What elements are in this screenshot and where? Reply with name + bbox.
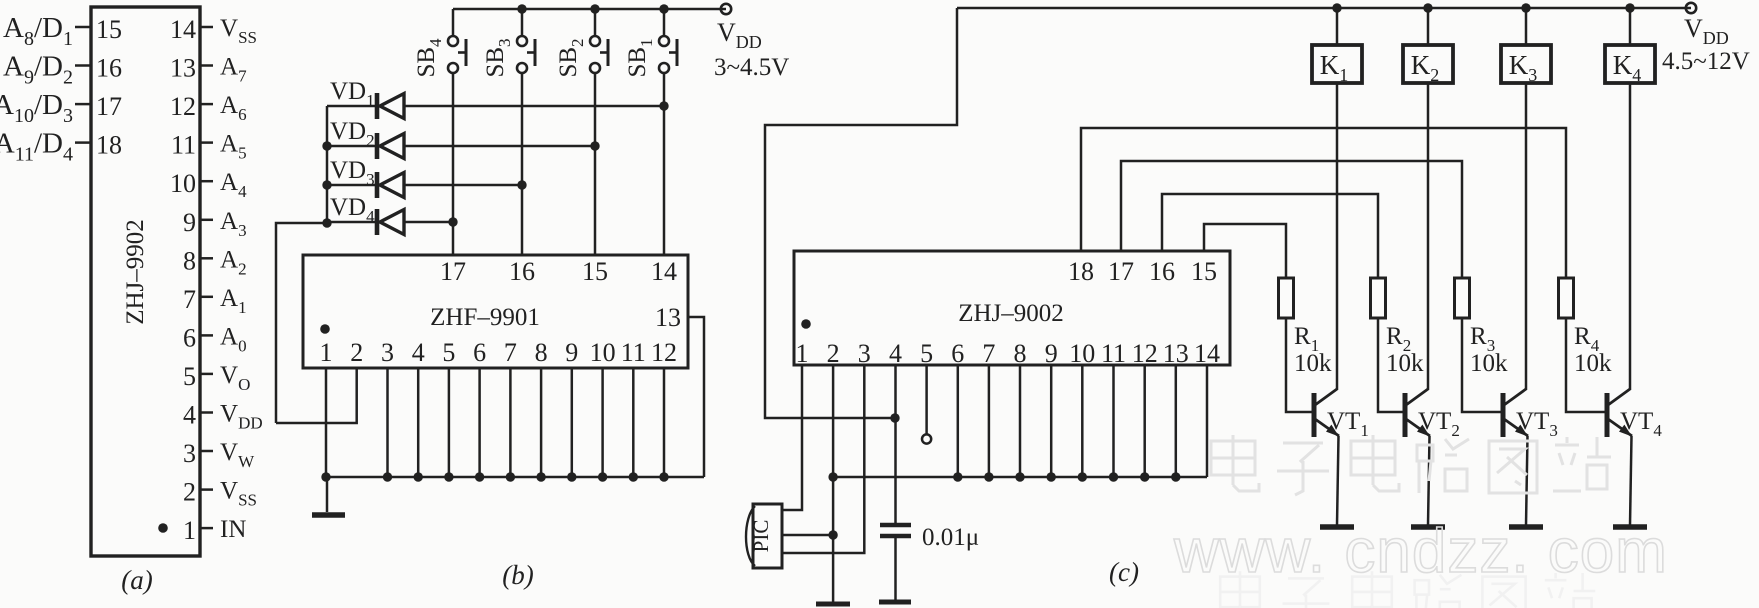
svg-text:VDD​: VDD​ (220, 401, 263, 433)
IC U3 pin 5 open terminal (922, 365, 931, 444)
IC U2 pin 17 label (440, 257, 466, 286)
wire A3/VDD to cathode node (276, 223, 327, 423)
label 0.01u (922, 524, 979, 551)
IC U3 pin 8 label (1014, 339, 1027, 368)
resistor R4 10k (1559, 278, 1613, 412)
wire ZHJ-9002 pin 3 to PIC (782, 365, 864, 553)
IC U1 pin 5 (VO) (183, 362, 250, 394)
svg-text:6: 6 (473, 338, 486, 367)
IC U1 pin 9 (A3) (183, 208, 247, 240)
svg-text:11: 11 (621, 338, 646, 367)
wire SB3 to ZHF-9901 pin 16 (517, 73, 526, 255)
svg-text:4.5~12V: 4.5~12V (1662, 48, 1750, 75)
svg-text:7: 7 (183, 285, 196, 314)
svg-text:1: 1 (796, 339, 809, 368)
node common cathode line (322, 106, 331, 228)
transistor VT1 (1314, 389, 1369, 527)
diode VD1 (327, 78, 664, 119)
svg-text:3~4.5V: 3~4.5V (714, 54, 789, 81)
IC U2 pin 5 label (442, 338, 455, 367)
IC U1 pin 15 (A8/D1) (3, 12, 122, 50)
svg-text:10k: 10k (1470, 350, 1508, 377)
IC U3 pin-1 indicator dot (801, 319, 811, 329)
IC U2 pin 12 label (651, 338, 677, 367)
svg-text:13: 13 (1163, 339, 1189, 368)
svg-text:SB1: SB1 (624, 38, 656, 77)
IC U2 ZHF-9901 body (303, 255, 688, 368)
svg-text:VT3: VT3 (1516, 408, 1558, 440)
svg-text:A10​/D3​: A10​/D3​ (0, 89, 73, 127)
svg-text:2: 2 (183, 478, 196, 507)
svg-text:A5​: A5​ (220, 131, 247, 163)
svg-text:9: 9 (1045, 339, 1058, 368)
IC U1 pin 12 (A6) (170, 92, 247, 124)
IC U2 pin 9 label (565, 338, 578, 367)
IC U3 pin 13 label (1163, 339, 1189, 368)
svg-text:10k: 10k (1574, 350, 1612, 377)
svg-text:(a): (a) (121, 565, 152, 595)
svg-text:A11​/D4​: A11​/D4​ (0, 128, 73, 166)
pushbutton SB1 (624, 4, 677, 77)
wire ZHF-9901 pin 12 to bus (659, 368, 668, 482)
IC U1 name ZHJ-9902 (rotated) (122, 219, 149, 325)
svg-text:17: 17 (96, 92, 122, 121)
svg-text:SB4: SB4 (413, 38, 445, 78)
resistor R1 10k (1279, 278, 1333, 412)
IC U2 name ZHF-9901 (430, 304, 540, 331)
svg-text:10k: 10k (1386, 350, 1424, 377)
wire ZHJ-9002 pin 2 ground (828, 365, 837, 602)
IC U2 pin 3 label (381, 338, 394, 367)
resistor R3 10k (1455, 278, 1509, 412)
svg-text:7: 7 (982, 339, 995, 368)
IC U3 pin 9 label (1045, 339, 1058, 368)
svg-text:0.01μ: 0.01μ (922, 524, 979, 551)
ground bus (c) (833, 476, 1207, 479)
svg-text:2: 2 (350, 338, 363, 367)
relay K2 (1403, 3, 1453, 390)
label 3~4.5V (714, 54, 789, 81)
svg-text:A6​: A6​ (220, 92, 247, 124)
wire ZHF-9901 pin 10 to bus (598, 368, 607, 482)
IC U2 pin 2 label (350, 338, 363, 367)
svg-text:A3​: A3​ (220, 208, 247, 240)
wire SB4 to ZHF-9901 pin 17 (448, 73, 457, 255)
label (b) (502, 560, 533, 590)
IC U3 pin 5 label (920, 339, 933, 368)
IC U1 pin 8 (A2) (183, 246, 247, 278)
IC U3 ZHJ-9002 body (794, 251, 1230, 365)
svg-text:IN: IN (220, 516, 246, 543)
wire ZHF-9901 pin 13 (688, 317, 704, 477)
svg-text:8: 8 (1014, 339, 1027, 368)
IC U3 name ZHJ-9002 (958, 300, 1064, 327)
svg-text:14: 14 (170, 15, 196, 44)
wire ZHF-9901 pin 3 to bus (383, 368, 392, 482)
VDD terminal (b) (721, 4, 731, 14)
relay K3 (1501, 3, 1551, 390)
IC U3 pin 12 label (1132, 339, 1158, 368)
svg-text:10: 10 (590, 338, 616, 367)
wire ZHF-9901 pin 7 to bus (506, 368, 515, 482)
ground (pin2) (816, 602, 850, 607)
ground (b) (312, 477, 345, 515)
wire to ZHF-9901 pin 2 (276, 368, 357, 423)
svg-text:17: 17 (1108, 257, 1134, 286)
svg-text:1: 1 (320, 338, 333, 367)
svg-text:PIC: PIC (749, 520, 773, 553)
wire ZHF-9901 pin 6 to bus (475, 368, 484, 482)
IC U2 pin 8 label (535, 338, 548, 367)
svg-text:15: 15 (1191, 257, 1217, 286)
svg-text:12: 12 (1132, 339, 1158, 368)
svg-text:VSS​: VSS​ (220, 15, 257, 47)
wire SB1 to ZHF-9901 pin 14 (659, 73, 668, 255)
IC U3 pin 17 label (1108, 257, 1134, 286)
svg-text:A1​: A1​ (220, 285, 247, 317)
svg-text:10: 10 (170, 169, 196, 198)
svg-text:A2​: A2​ (220, 246, 247, 278)
IC U1 pin 1 (IN) (183, 516, 246, 545)
svg-text:VW​: VW​ (220, 439, 255, 471)
svg-text:VO​: VO​ (220, 362, 250, 394)
svg-text:11: 11 (171, 131, 196, 160)
svg-text:ZHJ–9002: ZHJ–9002 (958, 300, 1064, 327)
svg-text:K2: K2 (1411, 50, 1440, 85)
svg-text:VDD: VDD (717, 18, 762, 52)
svg-text:2: 2 (827, 339, 840, 368)
svg-text:8: 8 (535, 338, 548, 367)
svg-text:VT4: VT4 (1620, 408, 1662, 440)
IC U1 pin 18 (A11/D4) (0, 128, 122, 166)
wire VDD rail (c) (957, 7, 1691, 10)
diode VD3 (327, 157, 522, 198)
label 4.5~12V (1662, 48, 1750, 75)
IC U2 pin-1 indicator dot (320, 324, 330, 334)
IC U3 pin 6 label (951, 339, 964, 368)
IC U3 pin 18 label (1068, 257, 1094, 286)
label (c) (1109, 557, 1139, 587)
IC U2 pin 11 label (621, 338, 646, 367)
diode VD2 (327, 118, 595, 159)
svg-text:15: 15 (96, 15, 122, 44)
wire ZHF-9901 pin 9 to bus (567, 368, 576, 482)
svg-text:12: 12 (651, 338, 677, 367)
IC U2 pin 1 label (320, 338, 333, 367)
IC U2 pin 16 label (509, 257, 535, 286)
IC U1 pin 11 (A5) (171, 131, 247, 163)
svg-text:6: 6 (951, 339, 964, 368)
svg-text:7: 7 (504, 338, 517, 367)
svg-text:(b): (b) (502, 560, 533, 590)
svg-text:9: 9 (565, 338, 578, 367)
transistor VT4 (1607, 389, 1662, 527)
svg-text:VT2: VT2 (1418, 408, 1460, 440)
IC U3 pin 1 label (796, 339, 809, 368)
wire SB2 to ZHF-9901 pin 15 (590, 73, 599, 255)
IC U1 ZHJ-9902 body (91, 7, 200, 556)
svg-text:ZHF–9901: ZHF–9901 (430, 304, 540, 331)
svg-text:A0​: A0​ (220, 323, 247, 355)
IC U1 pin 6 (A0) (183, 323, 247, 355)
svg-text:VDD: VDD (1684, 14, 1729, 48)
VDD terminal (c) (1686, 3, 1696, 13)
svg-text:17: 17 (440, 257, 466, 286)
wire ZHJ-9002 pin 17 to R3 (1121, 161, 1462, 278)
svg-text:1: 1 (183, 516, 196, 545)
IC U3 pin 15 label (1191, 257, 1217, 286)
IC U2 pin 14 label (651, 257, 677, 286)
label VDD (b) (717, 18, 762, 52)
svg-text:A4​: A4​ (220, 169, 247, 201)
svg-text:14: 14 (651, 257, 677, 286)
svg-text:14: 14 (1194, 339, 1220, 368)
IC U3 pin 16 label (1149, 257, 1175, 286)
svg-text:15: 15 (582, 257, 608, 286)
IC U1 pin 2 (VSS) (183, 478, 257, 510)
relay K4 (1605, 3, 1655, 390)
IC U3 pin 7 label (982, 339, 995, 368)
transistor VT3 (1503, 389, 1558, 527)
svg-text:K4: K4 (1613, 50, 1642, 85)
IC U3 pin 10 label (1069, 339, 1095, 368)
IC U1 pin 4 (VDD) (183, 401, 263, 433)
svg-text:13: 13 (655, 303, 681, 332)
svg-text:4: 4 (412, 338, 425, 367)
IC U1 pin 7 (A1) (183, 285, 247, 317)
wire VDD rail (b) (453, 8, 726, 11)
transistor VT2 (1405, 389, 1460, 527)
label VDD (c) (1684, 14, 1729, 48)
IC U2 pin 13 label (655, 303, 681, 332)
wire VDD feed to pin 4 (765, 8, 957, 423)
svg-text:4: 4 (183, 401, 196, 430)
pushbutton SB2 (555, 4, 608, 77)
svg-text:6: 6 (183, 323, 196, 352)
svg-text:12: 12 (170, 92, 196, 121)
wire ZHJ-9002 pin 18 to R4 (1081, 128, 1566, 278)
svg-text:SB2: SB2 (555, 38, 587, 77)
svg-text:3: 3 (381, 338, 394, 367)
svg-text:8: 8 (183, 246, 196, 275)
svg-text:A8​/D1​: A8​/D1​ (3, 12, 73, 50)
IR receiver PIC (746, 504, 782, 568)
IC U2 pin 4 label (412, 338, 425, 367)
svg-text:3: 3 (183, 439, 196, 468)
relay K1 (1312, 3, 1362, 390)
svg-text:VT1: VT1 (1327, 408, 1369, 440)
IC U3 pin 3 label (858, 339, 871, 368)
ground bus (b) (327, 476, 704, 479)
IC U1 pin 13 (A7) (170, 54, 247, 86)
svg-text:VSS​: VSS​ (220, 478, 257, 510)
wire ZHJ-9002 pin 16 to R2 (1162, 194, 1378, 278)
IC U2 pin 15 label (582, 257, 608, 286)
watermark row 1 (chinese) (1211, 435, 1611, 495)
IC U1 pin 14 (VSS) (170, 15, 257, 47)
capacitor C1 0.01u (879, 525, 911, 602)
wire ZHJ-9002 pin 1 to PIC (782, 365, 802, 510)
wires ZHJ-9002 pins 6-13 to bus (953, 365, 1180, 482)
IC U3 pin 14 label (1194, 339, 1220, 368)
pushbutton SB4 (413, 9, 466, 78)
IC U1 pin 3 (VW) (183, 439, 255, 471)
svg-text:16: 16 (96, 54, 122, 83)
IC U1 pin-1 indicator dot (158, 523, 168, 533)
IC U2 pin 10 label (590, 338, 616, 367)
wire PIC middle to ground net (782, 534, 833, 537)
svg-text:K3: K3 (1509, 50, 1538, 85)
resistor R2 10k (1371, 278, 1425, 412)
IC U3 pin 4 label (889, 339, 902, 368)
svg-text:18: 18 (1068, 257, 1094, 286)
svg-text:5: 5 (442, 338, 455, 367)
svg-text:18: 18 (96, 131, 122, 160)
wire ZHF-9901 pin 11 to bus (629, 368, 638, 482)
svg-text:10: 10 (1069, 339, 1095, 368)
wire ZHJ-9002 pin 14 to bus (1206, 365, 1209, 477)
svg-text:5: 5 (183, 362, 196, 391)
svg-text:5: 5 (920, 339, 933, 368)
wire ZHJ-9002 pin 15 to R1 (1204, 224, 1286, 278)
svg-text:11: 11 (1101, 339, 1126, 368)
IC U2 pin 6 label (473, 338, 486, 367)
IC U2 pin 7 label (504, 338, 517, 367)
IC U3 pin 11 label (1101, 339, 1126, 368)
svg-text:K1: K1 (1320, 50, 1349, 85)
svg-text:4: 4 (889, 339, 902, 368)
IC U1 pin 10 (A4) (170, 169, 247, 201)
svg-text:9: 9 (183, 208, 196, 237)
IC U1 pin 16 (A9/D2) (3, 51, 122, 89)
svg-text:ZHJ–9902: ZHJ–9902 (122, 219, 149, 325)
wire ZHF-9901 pin 4 to bus (414, 368, 423, 482)
watermark row 3 (chinese, clipped) (1220, 571, 1595, 608)
svg-text:A9​/D2​: A9​/D2​ (3, 51, 73, 89)
watermark row 2 (www.cndzz.com) (1173, 517, 1668, 586)
svg-text:A7​: A7​ (220, 54, 247, 86)
wire ZHF-9901 pin 8 to bus (536, 368, 545, 482)
pushbutton SB3 (482, 4, 535, 77)
wire ZHJ-9002 pin 4 to capacitor (894, 365, 897, 523)
svg-text:(c): (c) (1109, 557, 1139, 587)
svg-text:10k: 10k (1294, 350, 1332, 377)
IC U1 pin 17 (A10/D3) (0, 89, 122, 127)
wire ZHF-9901 pin 5 to bus (444, 368, 453, 482)
svg-text:16: 16 (509, 257, 535, 286)
svg-text:13: 13 (170, 54, 196, 83)
IC U3 pin 2 label (827, 339, 840, 368)
svg-text:3: 3 (858, 339, 871, 368)
svg-text:SB3: SB3 (482, 38, 514, 77)
diode VD4 (327, 194, 453, 235)
label (a) (121, 565, 152, 595)
wire ZHF-9901 pin 1 to bus (321, 368, 330, 482)
svg-text:16: 16 (1149, 257, 1175, 286)
